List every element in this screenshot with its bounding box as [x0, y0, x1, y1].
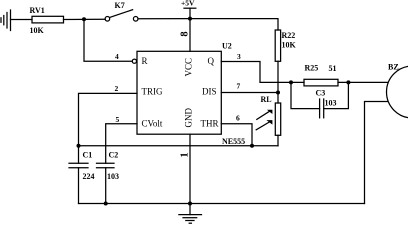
svg-text:Q: Q	[208, 56, 215, 66]
wire RL bottom to net	[277, 135, 279, 145]
junction node under RV1	[82, 17, 86, 21]
wire C3 left branch	[291, 82, 320, 108]
wire junction down to pin 4	[84, 19, 132, 61]
photoresistor RL	[275, 103, 280, 135]
svg-text:51: 51	[329, 64, 337, 73]
svg-text:R22: R22	[282, 31, 296, 40]
svg-text:10K: 10K	[282, 41, 297, 50]
wire +5V node to R22 top	[190, 19, 278, 30]
wire switch to +5V node	[138, 18, 190, 20]
svg-text:5: 5	[116, 115, 120, 124]
svg-text:103: 103	[107, 172, 119, 181]
resistor R22	[275, 30, 280, 61]
light arrow 2	[256, 120, 272, 130]
junction node THR	[250, 144, 254, 148]
svg-text:BZ: BZ	[388, 63, 399, 72]
svg-text:DIS: DIS	[202, 87, 217, 97]
wire R25 to buzzer	[338, 81, 388, 83]
svg-text:C2: C2	[109, 151, 119, 160]
svg-text:GND: GND	[184, 108, 194, 128]
light arrow 1	[257, 110, 273, 120]
svg-text:+5V: +5V	[181, 0, 195, 8]
capacitor C1	[69, 146, 88, 204]
svg-text:C1: C1	[83, 151, 93, 160]
wire DIS node to RL top	[277, 93, 279, 104]
capacitor C3	[320, 99, 324, 118]
svg-text:8: 8	[179, 31, 190, 36]
svg-text:7: 7	[237, 82, 241, 91]
wire THR (pin 6)	[221, 124, 252, 146]
reset bubble on pin 4	[132, 59, 136, 63]
wire pin 8 drop	[189, 19, 191, 52]
svg-text:224: 224	[83, 172, 95, 181]
IC U2 NE555 box	[137, 51, 221, 134]
svg-text:U2: U2	[222, 42, 232, 51]
buzzer BZ	[387, 66, 408, 118]
ground (left)	[1, 10, 11, 31]
svg-text:1: 1	[180, 152, 191, 157]
junction node +5V	[188, 17, 192, 21]
svg-text:2: 2	[115, 84, 119, 93]
junction node C2/rail	[104, 202, 108, 206]
svg-text:R25: R25	[305, 64, 319, 73]
junction node GND/rail	[188, 202, 192, 206]
wire Q (pin 3)	[221, 62, 304, 83]
wire TRIG-THR net	[79, 145, 279, 147]
switch K7	[105, 10, 138, 21]
svg-text:NE555: NE555	[222, 137, 245, 146]
resistor R25	[304, 79, 338, 86]
wire ground to RV1	[11, 19, 33, 21]
svg-text:103: 103	[325, 99, 337, 108]
wire TRIG (pin 2)	[79, 93, 138, 145]
ground (bottom)	[179, 204, 202, 224]
svg-text:6: 6	[236, 114, 240, 123]
junction node TRIG/C1	[77, 144, 81, 148]
svg-text:VCC: VCC	[184, 58, 194, 77]
junction node Q/C3 left	[289, 80, 293, 84]
svg-text:RL: RL	[261, 95, 272, 104]
wire GND (pin 1)	[189, 134, 191, 203]
ground rail wire	[79, 203, 365, 205]
svg-text:RV1: RV1	[30, 6, 45, 15]
wire DIS (pin 7)	[221, 92, 278, 94]
svg-text:4: 4	[115, 52, 119, 61]
svg-text:3: 3	[237, 52, 241, 61]
resistor RV1	[32, 16, 64, 23]
svg-text:R: R	[142, 56, 148, 66]
svg-text:THR: THR	[201, 119, 219, 129]
wire CVolt (pin 5)	[106, 124, 137, 164]
wire C3 right branch	[324, 82, 349, 108]
wire R22 bottom to DIS node	[277, 61, 279, 92]
svg-text:K7: K7	[115, 1, 125, 10]
svg-text:10K: 10K	[30, 26, 45, 35]
junction node R25/C3 right	[346, 80, 350, 84]
svg-text:C3: C3	[316, 89, 326, 98]
svg-text:CVolt: CVolt	[142, 119, 163, 129]
power +5V	[184, 8, 196, 18]
wire buzzer bottom to ground rail	[365, 102, 388, 204]
capacitor C2	[97, 163, 115, 203]
svg-text:TRIG: TRIG	[142, 87, 163, 97]
wire RV1 to switch	[64, 18, 106, 20]
junction node DIS/R22/RL	[276, 91, 280, 95]
